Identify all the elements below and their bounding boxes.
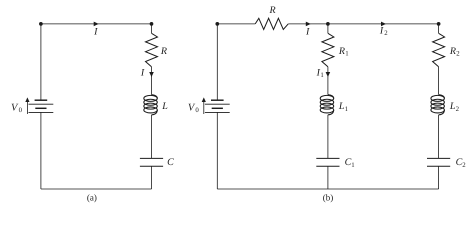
wire bottom rail (a) bbox=[41, 188, 152, 190]
label V0 (a) bbox=[11, 102, 23, 114]
current arrow I (b) bbox=[306, 22, 311, 27]
svg-text:1: 1 bbox=[345, 51, 348, 58]
label V0 (b) bbox=[188, 102, 200, 114]
node top-right (a) bbox=[150, 22, 154, 26]
label R1 bbox=[338, 46, 349, 58]
wire top-left segment (b) bbox=[217, 23, 255, 25]
svg-text:1: 1 bbox=[320, 72, 323, 79]
svg-text:1: 1 bbox=[345, 106, 348, 113]
node top-left (b) bbox=[215, 22, 219, 26]
svg-text:R: R bbox=[449, 46, 456, 57]
svg-text:(a): (a) bbox=[87, 192, 97, 202]
svg-text:I: I bbox=[379, 25, 384, 36]
svg-text:2: 2 bbox=[456, 106, 460, 113]
svg-text:I: I bbox=[93, 26, 98, 37]
svg-text:1: 1 bbox=[351, 162, 354, 169]
caption (a) bbox=[87, 192, 97, 202]
svg-text:0: 0 bbox=[195, 107, 199, 114]
label L1 bbox=[338, 101, 348, 113]
current arrow I2 (b) bbox=[381, 22, 386, 27]
label C (a) bbox=[167, 157, 174, 168]
current arrow I1 bbox=[326, 72, 331, 77]
svg-text:R: R bbox=[269, 5, 276, 16]
resistor R (b top) bbox=[255, 18, 288, 29]
wire R2-to-L2 bbox=[438, 67, 440, 95]
voltage arrow V0 (a) bbox=[25, 97, 29, 114]
wire left rail lower (b) bbox=[216, 112, 218, 189]
label L2 bbox=[449, 101, 460, 113]
current arrow I (a branch) bbox=[149, 72, 154, 77]
svg-text:I: I bbox=[305, 26, 310, 37]
resistor R (a) bbox=[146, 33, 158, 66]
current arrow I (a top) bbox=[94, 22, 99, 27]
wire resistor-to-junction (b) bbox=[288, 23, 328, 25]
svg-text:2: 2 bbox=[384, 30, 388, 37]
label I (a top) bbox=[93, 26, 98, 37]
battery V0 (b) bbox=[205, 100, 230, 112]
label R2 bbox=[449, 46, 460, 58]
wire left rail upper (a) bbox=[40, 24, 42, 100]
svg-text:R: R bbox=[338, 46, 345, 57]
caption (b) bbox=[323, 192, 334, 202]
wire right rail top stub (a) bbox=[151, 24, 153, 33]
wire R1-to-L1 with current arrow bbox=[327, 67, 329, 95]
inductor L (a) bbox=[144, 95, 158, 115]
svg-text:2: 2 bbox=[456, 51, 460, 58]
svg-text:0: 0 bbox=[19, 107, 23, 114]
wire capacitor-to-bottom (a) bbox=[151, 166, 153, 189]
inductor L1 bbox=[320, 95, 334, 115]
svg-text:(b): (b) bbox=[323, 192, 334, 202]
wire left rail upper (b) bbox=[216, 24, 218, 100]
wire L2-to-C2 bbox=[438, 115, 440, 158]
capacitor C2 bbox=[427, 158, 450, 166]
voltage arrow V0 (b) bbox=[202, 97, 206, 114]
svg-text:C: C bbox=[167, 157, 174, 168]
label I (b) bbox=[305, 26, 310, 37]
label R (a) bbox=[160, 46, 167, 57]
wire C2-to-bottom bbox=[438, 166, 440, 189]
wire bottom rail (b) bbox=[217, 188, 438, 190]
node junction (b) bbox=[326, 22, 330, 26]
capacitor C (a) bbox=[140, 158, 163, 166]
node top-right (b) bbox=[437, 22, 441, 26]
label C1 bbox=[345, 157, 355, 169]
wire L1-to-C1 bbox=[327, 115, 329, 158]
label R (b top) bbox=[269, 5, 276, 16]
wire resistor-to-inductor with current arrow (a) bbox=[151, 67, 153, 95]
svg-text:I: I bbox=[140, 67, 145, 78]
wire left rail lower (a) bbox=[40, 112, 42, 189]
svg-text:R: R bbox=[160, 46, 167, 57]
resistor R1 bbox=[322, 33, 334, 66]
label C2 bbox=[456, 157, 467, 169]
label I2 (b) bbox=[379, 25, 388, 37]
svg-text:L: L bbox=[161, 101, 168, 112]
inductor L2 bbox=[431, 95, 445, 115]
svg-text:2: 2 bbox=[462, 162, 466, 169]
label I1 bbox=[316, 67, 324, 79]
wire inductor-to-capacitor (a) bbox=[151, 115, 153, 158]
node top-left (a) bbox=[39, 22, 43, 26]
wire C1-to-bottom bbox=[327, 166, 329, 189]
battery V0 (a) bbox=[29, 100, 54, 112]
wire right branch top stub (b) bbox=[438, 24, 440, 33]
capacitor C1 bbox=[316, 158, 339, 166]
label I (a branch) bbox=[140, 67, 145, 78]
label L (a) bbox=[161, 101, 168, 112]
wire top rail (a) bbox=[41, 23, 152, 25]
wire middle branch top stub (b) bbox=[327, 24, 329, 33]
wire junction-to-right (b) bbox=[328, 23, 439, 25]
resistor R2 bbox=[433, 33, 445, 66]
